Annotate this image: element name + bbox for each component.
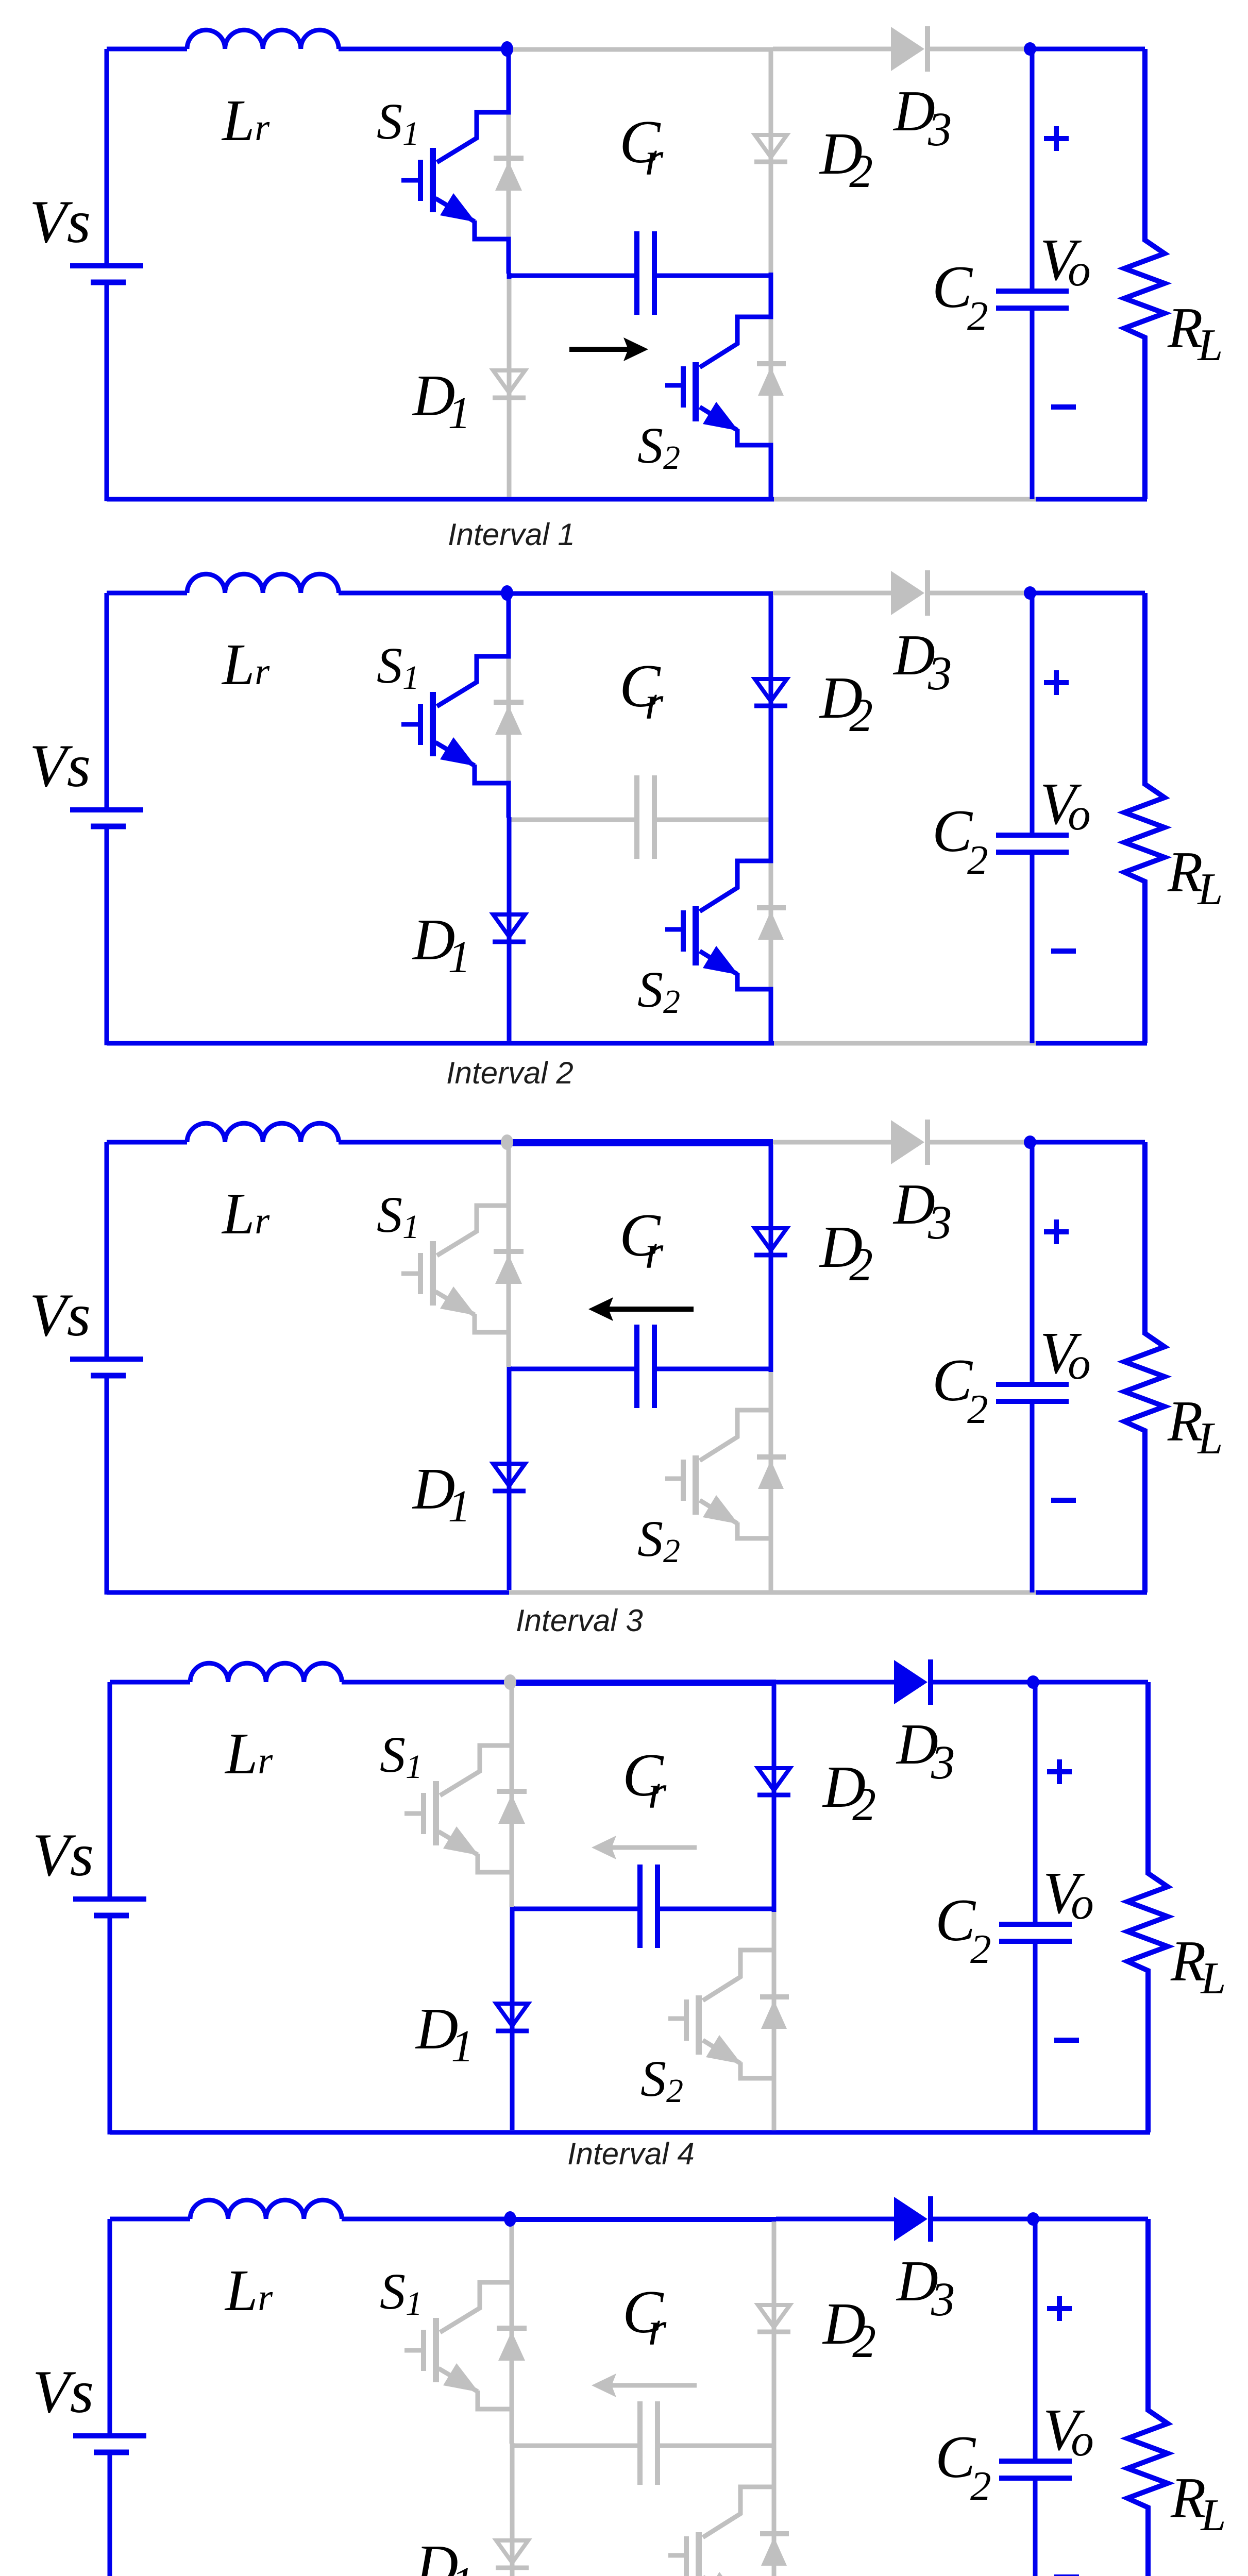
- circuit interval 2: [29, 570, 1223, 1045]
- svg-text:Interval 1: Interval 1: [448, 517, 575, 552]
- current arrow interval 5: [592, 2374, 697, 2397]
- circuit interval 1: [29, 26, 1223, 501]
- svg-text:Interval 2: Interval 2: [446, 1056, 574, 1090]
- svg-text:Interval 4: Interval 4: [567, 2137, 695, 2171]
- circuit interval 5: [32, 2196, 1226, 2576]
- svg-text:Interval 3: Interval 3: [516, 1603, 643, 1638]
- current arrow interval 4: [592, 1836, 697, 1859]
- current arrow interval 1: [569, 337, 648, 361]
- current arrow interval 3: [588, 1297, 694, 1321]
- circuit interval 3: [29, 1120, 1223, 1595]
- circuit interval 4: [32, 1659, 1226, 2134]
